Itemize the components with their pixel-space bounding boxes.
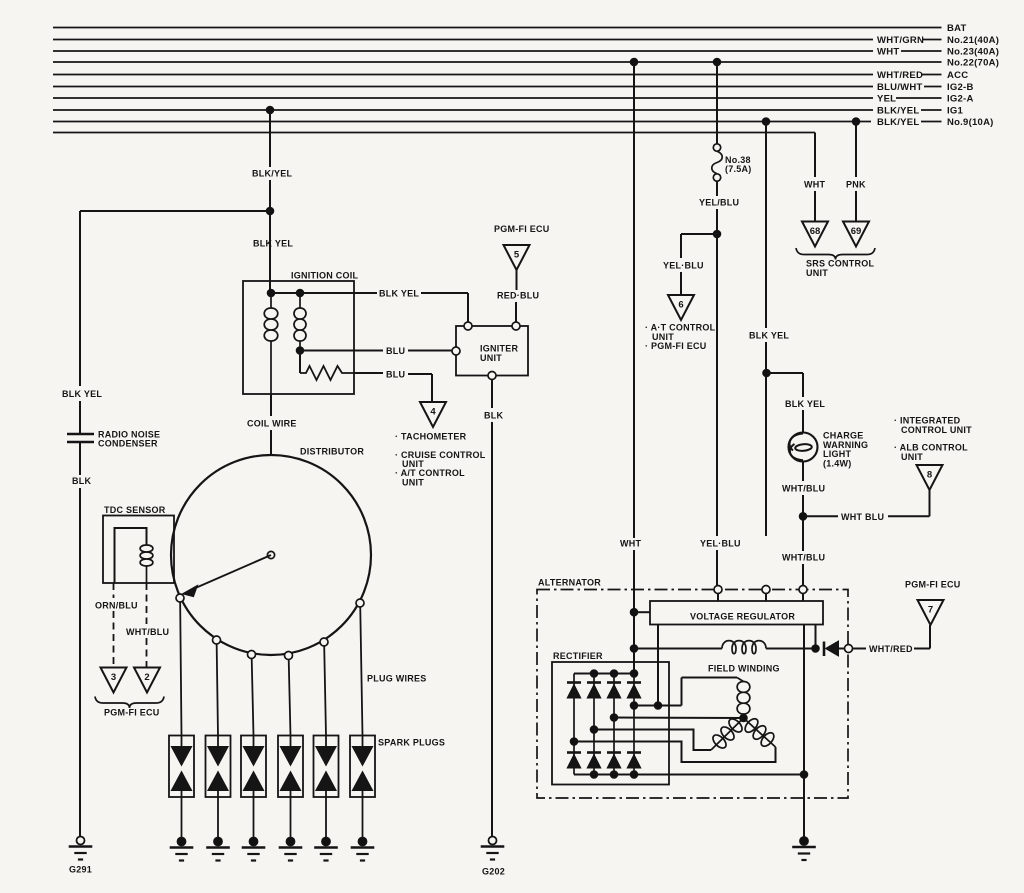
diode rectifier top D4 — [627, 681, 641, 684]
svg-text:ACC: ACC — [947, 70, 968, 81]
svg-text:UNIT: UNIT — [402, 477, 424, 487]
svg-text:WHT: WHT — [620, 539, 641, 549]
node IG1 / BLK-YEL branch — [266, 106, 274, 114]
ground G202 — [489, 837, 497, 845]
pin distributor cap terminal 2 — [213, 636, 221, 644]
wire phase 3 — [594, 730, 711, 751]
diode rectifier bottom D5 — [567, 751, 581, 754]
spark plug 2 — [206, 736, 231, 798]
node field diode anode — [812, 645, 820, 653]
svg-text:YEL/BLU: YEL/BLU — [699, 198, 739, 208]
inductor field winding coil — [722, 641, 766, 654]
wire — [634, 611, 650, 613]
svg-text:YEL·BLU: YEL·BLU — [700, 539, 741, 549]
svg-text:PGM-FI ECU: PGM-FI ECU — [104, 708, 160, 718]
wire to charge warning light — [767, 372, 804, 374]
wire BLU (resistor) — [354, 372, 383, 374]
spark plug 5 — [314, 736, 339, 798]
svg-text:WHT: WHT — [877, 46, 899, 57]
wire — [680, 272, 682, 295]
ground spark plug 5 — [322, 837, 331, 846]
svg-text:WHT/BLU: WHT/BLU — [782, 484, 825, 494]
svg-text:BLK/YEL: BLK/YEL — [877, 117, 919, 128]
wire phase 2 to star point — [614, 717, 744, 720]
svg-text:WHT BLU: WHT BLU — [841, 512, 884, 522]
svg-text:No.21(40A): No.21(40A) — [947, 35, 999, 46]
wire — [921, 109, 942, 111]
wire BLK to G202 — [491, 380, 493, 409]
svg-text:BLK YEL: BLK YEL — [749, 331, 789, 341]
svg-text:(7.5A): (7.5A) — [725, 164, 752, 174]
wire phase 1 — [634, 705, 682, 707]
wire — [922, 39, 942, 41]
spark plug 6 — [350, 736, 375, 798]
wire bus IG1 — [53, 109, 873, 111]
svg-text:IGNITION COIL: IGNITION COIL — [291, 271, 359, 281]
inductor ignition coil secondary winding — [299, 293, 301, 308]
svg-text:PNK: PNK — [846, 180, 866, 190]
pin alternator YEL-BLU — [714, 586, 722, 594]
wire WHT/BLU — [802, 462, 804, 482]
wire plug wire 2 — [217, 644, 218, 736]
wire PNK to SRS 69 — [855, 122, 857, 178]
wire bus No.9(10A) — [53, 121, 871, 123]
wire — [766, 648, 816, 650]
spark plug 3 — [241, 736, 266, 798]
svg-text:FIELD WINDING: FIELD WINDING — [708, 663, 780, 673]
pin distributor cap terminal 6 — [356, 599, 364, 607]
svg-text:BLK/YEL: BLK/YEL — [252, 169, 293, 179]
ignition coil box — [243, 281, 354, 394]
svg-text:WHT/RED: WHT/RED — [869, 644, 913, 654]
pin distributor cap terminal 3 — [248, 651, 256, 659]
spark plug 4 — [278, 736, 303, 798]
rotor pivot — [267, 551, 274, 558]
wire — [914, 648, 930, 650]
node coil secondary top — [296, 289, 304, 297]
svg-text:4: 4 — [430, 407, 436, 418]
svg-text:UNIT: UNIT — [480, 353, 502, 363]
lamp charge warning light (1.4W) — [789, 433, 818, 462]
svg-text:IG2-A: IG2-A — [947, 93, 974, 104]
wire YEL/BLU — [716, 181, 718, 196]
pin distributor cap terminal 1 — [176, 594, 184, 602]
connector 68 (SRS) — [802, 222, 828, 247]
wire BLK/YEL drop from IG1 — [269, 110, 271, 167]
resistor ignition coil internal resistor — [300, 366, 354, 380]
node ground bus junction — [800, 771, 808, 779]
wire — [270, 430, 272, 455]
TDC sensor box — [103, 516, 174, 584]
wire regulator to ground — [803, 625, 805, 837]
wire — [765, 342, 767, 536]
diode rectifier top D2 — [587, 681, 601, 684]
wire YEL-BLU — [680, 234, 682, 258]
wire — [901, 50, 942, 52]
wire to resistor — [299, 351, 301, 374]
svg-text:SPARK PLUGS: SPARK PLUGS — [378, 738, 445, 748]
wire rectifier column 3 — [613, 674, 615, 775]
inductor ignition coil primary winding — [270, 293, 272, 308]
node No.9 / PNK branch — [852, 118, 860, 126]
wire WHT/BLU dashed — [146, 583, 148, 624]
diode rectifier bottom D8 — [627, 751, 641, 754]
brace PGM-FI ECU — [95, 697, 164, 709]
svg-text:ORN/BLU: ORN/BLU — [95, 600, 138, 610]
fuse No.38 (7.5A) — [713, 144, 720, 151]
diode rectifier bottom D6 — [587, 751, 601, 754]
node rectifier bottom bus — [630, 771, 638, 779]
wire — [802, 564, 804, 586]
wire — [922, 74, 942, 76]
wire — [633, 550, 635, 674]
svg-text:WHT: WHT — [804, 180, 825, 190]
node condenser tee — [266, 207, 274, 215]
connector 69 (SRS) — [843, 222, 869, 247]
node voltage regulator in — [630, 608, 638, 616]
wire rectifier column 4 — [633, 674, 635, 775]
wire — [682, 677, 738, 679]
pin igniter BLK-YEL in — [464, 322, 472, 330]
wire fuse 38 feed — [716, 62, 718, 144]
svg-text:UNIT: UNIT — [806, 268, 828, 278]
wire — [896, 97, 942, 99]
wire field winding feed — [634, 648, 722, 650]
node rectifier top bus — [610, 670, 618, 678]
wire rectifier column 1 — [573, 674, 575, 775]
node rectifier top bus — [590, 670, 598, 678]
node YEL/BLU tee — [713, 230, 721, 238]
wire — [491, 422, 493, 837]
pin distributor cap terminal 5 — [320, 638, 328, 646]
wire regulator to rectifier tap — [657, 625, 659, 706]
wire — [271, 292, 300, 294]
connector 5 (PGM-FI ECU) — [504, 245, 530, 270]
ground spark plug 3 — [249, 837, 258, 846]
ground spark plug 1 — [177, 837, 186, 846]
wire — [802, 410, 804, 433]
wire BLK YEL — [802, 373, 804, 397]
svg-text:(1.4W): (1.4W) — [823, 458, 852, 468]
wire — [921, 121, 942, 123]
spark plug 1 — [169, 736, 194, 798]
ground G291 — [77, 837, 85, 845]
wire to connector 8 — [803, 515, 838, 517]
svg-text:7: 7 — [928, 605, 933, 616]
alternator dash-dot border — [537, 590, 848, 799]
inductor stator winding top — [737, 678, 744, 682]
svg-text:CONTROL UNIT: CONTROL UNIT — [901, 425, 972, 435]
inductor stator winding lower-right — [744, 718, 776, 747]
svg-text:WHT/BLU: WHT/BLU — [782, 553, 825, 563]
svg-text:3: 3 — [111, 672, 116, 683]
pin igniter BLK out — [488, 372, 496, 380]
node coil primary top — [267, 289, 275, 297]
connector 2 (PGM-FI ECU) — [134, 668, 160, 693]
wire bus IG2-B — [53, 86, 873, 88]
node phase tap 2 — [610, 714, 618, 722]
svg-text:BLK/YEL: BLK/YEL — [877, 105, 919, 116]
wire bus to SRS 68 — [53, 132, 815, 134]
svg-text:PLUG WIRES: PLUG WIRES — [367, 674, 427, 684]
ground spark plug 6 — [358, 837, 367, 846]
node regulator tap — [654, 702, 662, 710]
wire — [421, 292, 468, 294]
svg-text:RED·BLU: RED·BLU — [497, 291, 539, 301]
svg-text:BLK YEL: BLK YEL — [253, 239, 293, 249]
svg-text:BLK YEL: BLK YEL — [62, 389, 102, 399]
diode field rectifier diode — [823, 642, 826, 657]
wire TDC loop — [115, 528, 147, 583]
svg-text:PGM-FI ECU: PGM-FI ECU — [494, 224, 550, 234]
brace SRS control unit — [796, 248, 875, 260]
node rectifier top bus — [630, 670, 638, 678]
svg-text:CONDENSER: CONDENSER — [98, 439, 158, 449]
wire — [924, 86, 942, 88]
wire — [681, 678, 683, 706]
svg-text:68: 68 — [810, 226, 821, 237]
pin igniter RED-BLU in — [512, 322, 520, 330]
wire RED-BLU — [516, 270, 518, 290]
wire — [146, 566, 148, 583]
wire plug wire 5 — [324, 646, 326, 736]
wire to connector 6 — [681, 233, 717, 235]
wire — [408, 373, 432, 375]
ground spark plug 2 — [214, 837, 223, 846]
node No.22 / fuse 38 branch — [713, 58, 721, 66]
wire WHT main drop — [633, 62, 635, 538]
svg-text:WHT/BLU: WHT/BLU — [126, 627, 169, 637]
wire bus No.23(40A) — [53, 50, 873, 52]
wire — [888, 515, 930, 517]
wire bus No.21(40A) — [53, 39, 873, 41]
capacitor radio noise condenser — [67, 433, 94, 436]
wire — [855, 191, 857, 222]
wire — [802, 594, 804, 602]
wire phase 4 — [574, 742, 776, 763]
wire rectifier bottom bus — [574, 774, 804, 776]
svg-text:UNIT: UNIT — [901, 452, 923, 462]
wire rectifier top bus — [574, 673, 634, 675]
op-amp igniter unit box — [456, 326, 528, 376]
pin alternator WHT-BLU — [799, 586, 807, 594]
wire plug wire 4 — [289, 660, 291, 736]
svg-text:6: 6 — [678, 300, 683, 311]
wire plug wire 6 — [360, 607, 362, 736]
svg-text:VOLTAGE REGULATOR: VOLTAGE REGULATOR — [690, 612, 795, 622]
svg-text:TDC SENSOR: TDC SENSOR — [104, 505, 166, 515]
svg-text:· PGM-FI ECU: · PGM-FI ECU — [645, 341, 707, 351]
wire — [467, 293, 469, 322]
wire — [146, 638, 148, 668]
svg-text:No.22(70A): No.22(70A) — [947, 57, 999, 68]
wire bus IG2-A — [53, 97, 873, 99]
wire — [269, 281, 271, 293]
wire coil wire — [270, 394, 272, 416]
node WHT BLU tee — [799, 513, 807, 521]
pin igniter BLU in — [452, 347, 460, 355]
wire — [113, 611, 115, 668]
wire condenser lead — [79, 211, 81, 386]
wire — [716, 550, 718, 586]
svg-text:YEL·BLU: YEL·BLU — [663, 260, 704, 270]
svg-text:BLK YEL: BLK YEL — [379, 289, 419, 299]
node rectifier bottom bus — [590, 771, 598, 779]
wire WHT to SRS 68 — [814, 133, 816, 178]
wire — [717, 594, 719, 602]
svg-text:WHT/RED: WHT/RED — [877, 70, 923, 81]
svg-text:BLK YEL: BLK YEL — [785, 399, 825, 409]
wire rectifier column 2 — [593, 674, 595, 775]
distributor housing circle — [171, 455, 371, 655]
voltage regulator box — [650, 601, 823, 625]
connector 3 (PGM-FI ECU) — [101, 668, 127, 693]
wire condenser to G291 — [79, 442, 81, 475]
node No.22 / WHT branch — [630, 58, 638, 66]
node rectifier bottom bus — [610, 771, 618, 779]
svg-text:BLU: BLU — [386, 346, 405, 356]
wire — [765, 594, 767, 602]
rectifier box — [552, 662, 669, 785]
wire — [515, 302, 517, 322]
svg-text:IG1: IG1 — [947, 105, 964, 116]
diode rectifier top D1 — [567, 681, 581, 684]
svg-text:PGM-FI ECU: PGM-FI ECU — [905, 580, 961, 590]
svg-text:No.23(40A): No.23(40A) — [947, 46, 999, 57]
svg-text:RECTIFIER: RECTIFIER — [553, 651, 603, 661]
svg-text:DISTRIBUTOR: DISTRIBUTOR — [300, 447, 364, 457]
pin alternator BLK-YEL — [762, 586, 770, 594]
svg-text:5: 5 — [514, 250, 520, 261]
inductor TDC sensor coil — [140, 545, 153, 566]
node coil secondary bottom — [296, 347, 304, 355]
wire BLU (secondary) — [300, 350, 383, 352]
wire plug wire 3 — [252, 659, 254, 736]
svg-text:WHT/GRN: WHT/GRN — [877, 35, 924, 46]
ground spark plug 4 — [286, 837, 295, 846]
svg-text:BLK: BLK — [484, 411, 503, 421]
inductor stator winding lower-left — [711, 718, 744, 750]
svg-text:BAT: BAT — [947, 23, 967, 34]
wire — [839, 648, 845, 650]
diode rectifier top D3 — [607, 681, 621, 684]
wire regulator to field diode — [815, 625, 817, 649]
ground alternator case — [800, 837, 809, 846]
node phase tap 1 — [630, 702, 638, 710]
wire WHT/RED out — [853, 648, 867, 650]
wire — [929, 625, 931, 649]
wire BLK YEL drop from No.9 — [765, 122, 767, 329]
pin alternator WHT-RED — [845, 645, 853, 653]
svg-text:ALTERNATOR: ALTERNATOR — [538, 578, 601, 588]
wire bus No.22(70A) — [53, 61, 942, 63]
connector 8 (ICU/ALB) — [917, 465, 943, 490]
svg-text:YEL: YEL — [877, 93, 896, 104]
svg-text:IG2-B: IG2-B — [947, 82, 974, 93]
diode rectifier bottom D7 — [607, 751, 621, 754]
svg-text:COIL WIRE: COIL WIRE — [247, 418, 297, 428]
node charge light tee — [763, 369, 771, 377]
svg-text:BLK: BLK — [72, 476, 91, 486]
wire — [929, 490, 931, 516]
node phase tap 4 — [570, 738, 578, 746]
svg-text:2: 2 — [144, 672, 149, 683]
wire to radio noise condenser — [80, 210, 270, 212]
svg-text:BLU: BLU — [386, 370, 405, 380]
svg-text:69: 69 — [851, 226, 862, 237]
wire — [814, 191, 816, 222]
connector 7 (PGM-FI ECU) — [918, 600, 944, 625]
wire — [269, 180, 271, 281]
node field winding feed — [630, 645, 638, 653]
rotor arm arrow — [192, 555, 271, 590]
wire — [408, 350, 452, 352]
wire plug wire 1 — [180, 602, 181, 736]
node No.9 / BLK-YEL branch — [762, 118, 770, 126]
wire bus BAT — [53, 27, 942, 29]
wire — [802, 495, 804, 551]
wire — [79, 488, 81, 837]
node phase tap 3 — [590, 726, 598, 734]
wire — [431, 374, 433, 402]
wire bus ACC — [53, 74, 873, 76]
pin distributor cap terminal 4 — [285, 652, 293, 660]
svg-text:· TACHOMETER: · TACHOMETER — [395, 432, 467, 442]
wire ORN/BLU dashed — [113, 583, 115, 598]
svg-text:G202: G202 — [482, 867, 505, 877]
svg-text:G291: G291 — [69, 865, 92, 875]
svg-text:BLU/WHT: BLU/WHT — [877, 82, 923, 93]
wire — [716, 209, 718, 536]
node stator star point — [740, 714, 748, 722]
connector 6 (A/T + PGM-FI) — [668, 295, 694, 320]
svg-text:No.9(10A): No.9(10A) — [947, 117, 994, 128]
wire — [79, 401, 81, 433]
svg-text:8: 8 — [927, 470, 932, 481]
connector 4 (tachometer feed) — [420, 402, 446, 427]
wire BLK YEL to igniter — [300, 292, 377, 294]
